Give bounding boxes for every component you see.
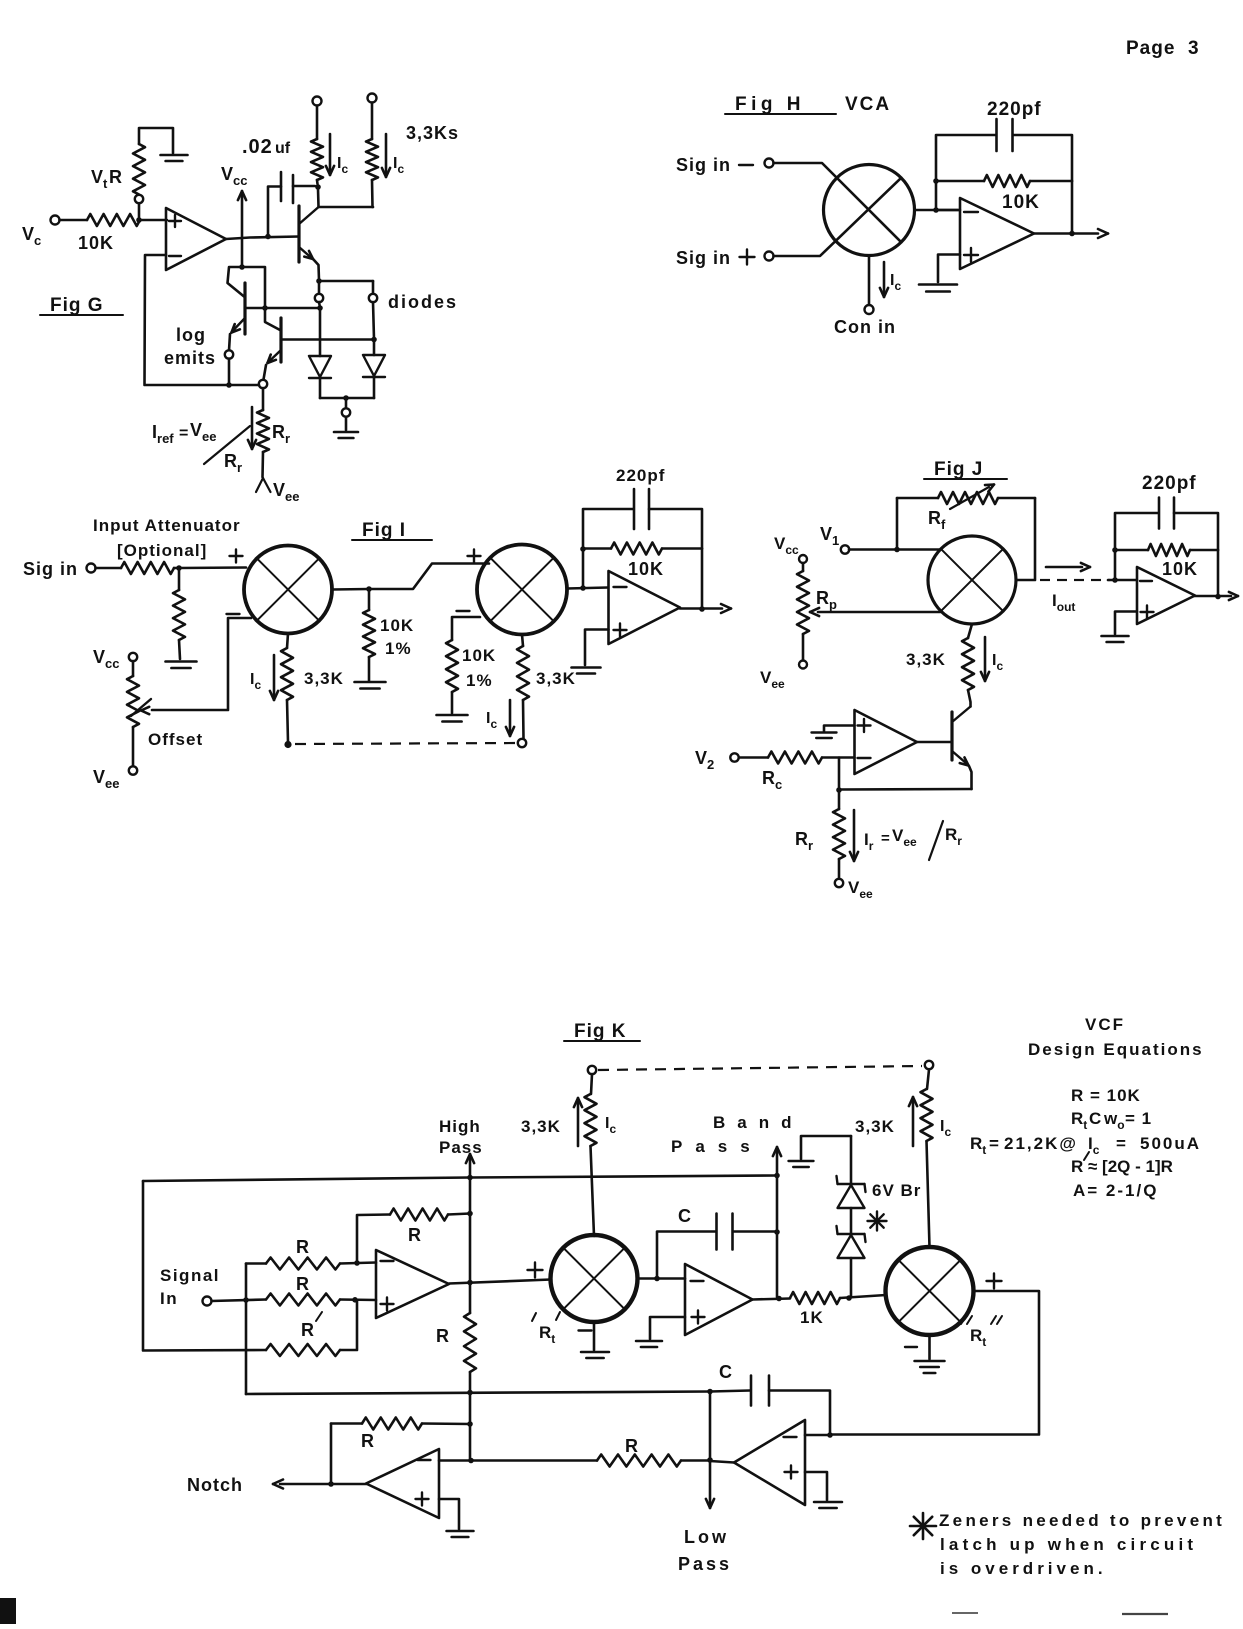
svg-text:Pass: Pass <box>671 1137 763 1156</box>
wire term to R2 <box>316 106 319 140</box>
label M2 minus <box>227 613 240 615</box>
label Iref=Vee <box>152 420 216 446</box>
svg-text:Ic: Ic <box>250 671 261 692</box>
ground G9 <box>812 733 837 739</box>
svg-text:Design Equations: Design Equations <box>1028 1040 1204 1059</box>
node I junction <box>316 278 322 284</box>
resistor R10 10K 1% <box>446 640 458 713</box>
wire col470 lower <box>469 1393 472 1424</box>
svg-text:V1: V1 <box>820 524 839 548</box>
terminal dashed left <box>588 1066 596 1074</box>
U5 minus sign <box>858 757 871 759</box>
op-amp U5 <box>855 710 918 774</box>
wire R4 right lead <box>1030 180 1072 183</box>
wire main feedback rail <box>143 1176 777 1182</box>
label 1K <box>800 1308 824 1327</box>
note line 1 <box>939 1511 1225 1530</box>
wire node F to D2 <box>373 340 376 356</box>
U3 minus sign <box>614 586 627 588</box>
wire M2 bottom <box>287 634 288 649</box>
svg-text:Rt: Rt <box>970 1134 986 1157</box>
wire V1 to M4 <box>849 548 940 551</box>
svg-text:A= 2-1/Q: A= 2-1/Q <box>1073 1181 1158 1200</box>
wire fb riser HP <box>357 1215 390 1264</box>
transistor Q4 base bar <box>950 712 953 760</box>
svg-text:Vee: Vee <box>93 767 119 791</box>
U4 minus sign <box>1140 580 1152 582</box>
wire col470 to notch <box>469 1424 472 1461</box>
node E junction <box>317 305 323 311</box>
resistor R14 3.3K J <box>962 638 974 690</box>
arrow Ic K2 <box>909 1097 917 1146</box>
label Notch <box>187 1475 243 1495</box>
wire M3 out <box>567 588 608 589</box>
svg-text:VCA: VCA <box>845 94 891 115</box>
diode D2 <box>363 355 385 377</box>
U4 plus sign <box>1141 606 1154 619</box>
wire U7 out <box>753 1299 791 1300</box>
wire C5 right lead <box>733 1230 777 1233</box>
transistor Q3 emitter <box>299 247 319 280</box>
ground G14 <box>814 1502 842 1508</box>
wire R18 to node AE <box>340 1298 376 1301</box>
wire emitter rail right <box>319 280 373 283</box>
svg-text:3,3K: 3,3K <box>855 1117 895 1136</box>
node R junction <box>580 546 586 552</box>
node U junction <box>1112 577 1118 583</box>
pot Rp body <box>797 563 809 660</box>
U1 plus sign <box>169 215 181 227</box>
svg-text:Zeners needed to prevent: Zeners needed to prevent <box>939 1511 1225 1530</box>
label Optional <box>117 541 207 560</box>
label R18 <box>296 1274 309 1294</box>
node B junction <box>239 264 245 270</box>
svg-text:High: High <box>439 1117 481 1136</box>
label Rp <box>816 588 837 612</box>
svg-text:Iout: Iout <box>1052 591 1075 614</box>
node A junction <box>136 217 142 223</box>
wire node I to diode ring left <box>318 281 321 294</box>
svg-text:=: = <box>1116 1134 1126 1153</box>
svg-text:R: R <box>625 1436 638 1456</box>
svg-text:log: log <box>176 325 206 345</box>
wire node J down <box>345 398 348 408</box>
Fig K label <box>564 1021 640 1042</box>
label Ic H <box>890 272 901 293</box>
scan dash 1 <box>952 1612 978 1614</box>
svg-text:Ic: Ic <box>940 1118 951 1139</box>
label Signal In <box>160 1266 220 1308</box>
label Design Equations <box>1028 1040 1204 1059</box>
svg-text:10K: 10K <box>380 616 414 635</box>
wire R17 to node AD <box>340 1263 376 1264</box>
svg-text:Rt: Rt <box>539 1323 555 1346</box>
wire sig- to M1 <box>774 163 902 242</box>
ground G1 <box>161 155 188 161</box>
resistor R9 10K 1% <box>363 589 375 681</box>
svg-text:Notch: Notch <box>187 1475 243 1495</box>
wire M5 to ground <box>593 1322 596 1350</box>
wire R3 down to collector rail <box>371 180 374 207</box>
wire to R15 <box>591 1074 592 1094</box>
svg-text:500uA: 500uA <box>1140 1134 1201 1153</box>
resistor R16 3.3K <box>921 1089 933 1141</box>
resistor R20 HP feedback <box>390 1209 448 1221</box>
label Ic I1 <box>250 671 261 692</box>
ground G5 <box>355 682 386 689</box>
U6 minus sign <box>381 1260 394 1262</box>
svg-text:Ic: Ic <box>393 155 404 176</box>
ground G11 <box>581 1352 609 1358</box>
node H junction <box>265 234 271 240</box>
capacitor C5 <box>717 1214 733 1250</box>
ground G7 <box>572 668 601 674</box>
capacitor C4 220pf <box>1159 498 1174 529</box>
wire U8 out <box>710 1461 734 1463</box>
svg-text:1K: 1K <box>800 1308 824 1327</box>
ground G12 <box>636 1341 662 1347</box>
wire Q1 emitter down <box>229 334 230 351</box>
wire M3 bottom <box>522 635 523 647</box>
Fig H label <box>725 94 836 115</box>
label C6 <box>719 1362 732 1382</box>
label log emits <box>164 325 216 368</box>
wire Vc to R1 <box>60 219 88 222</box>
label VCF <box>1085 1015 1125 1034</box>
wire M1 output <box>915 209 959 212</box>
U5 plus sign <box>858 719 871 732</box>
op-amp U8 LP <box>734 1420 805 1505</box>
wire right to diode term <box>372 281 375 294</box>
svg-text:Ic: Ic <box>1088 1134 1100 1157</box>
U1 minus sign <box>169 255 181 257</box>
terminal Vee I <box>129 766 137 774</box>
label 3,3K I2 <box>536 669 576 688</box>
terminal 3.3K top 2 <box>368 94 377 103</box>
svg-text:=: = <box>989 1134 999 1153</box>
svg-text:In: In <box>160 1289 178 1308</box>
wire U1 output <box>226 237 299 240</box>
wire R20 to node Y2 <box>448 1214 470 1215</box>
wire M2 out <box>332 588 369 591</box>
node AB junction <box>846 1295 852 1301</box>
wire SigIn to R18 <box>212 1300 267 1302</box>
svg-text:uf: uf <box>275 140 291 157</box>
node F junction <box>371 337 377 343</box>
ground G15 <box>447 1531 474 1537</box>
label VCA <box>845 94 891 115</box>
U9 plus sign <box>416 1493 429 1506</box>
svg-text:3,3K: 3,3K <box>521 1117 561 1136</box>
label M6 plus <box>987 1274 1002 1289</box>
scan dash 2 <box>1122 1613 1168 1615</box>
capacitor C3 220pf <box>634 489 649 529</box>
node AO junction <box>328 1481 334 1487</box>
node AJ junction <box>774 1229 780 1235</box>
wire node G to Q3 collector <box>317 189 320 207</box>
label R24 <box>361 1431 374 1451</box>
svg-text:Vee: Vee <box>760 668 785 691</box>
arrow Ic1 <box>326 134 334 175</box>
svg-text:10K: 10K <box>1162 559 1198 579</box>
wire R2 to node G <box>316 180 319 184</box>
svg-text:Vt: Vt <box>91 167 108 191</box>
wire Q4 emitter rail <box>839 788 972 791</box>
wire fb right riser down <box>1217 550 1220 597</box>
transistor Q3 base bar <box>297 206 300 262</box>
wire Rr to Vee <box>838 859 841 879</box>
label M5 plus <box>528 1263 543 1278</box>
label Sig in plus <box>676 248 755 268</box>
svg-text:10K: 10K <box>462 646 496 665</box>
wire M3 minus in <box>452 617 480 640</box>
wire node X to Rr <box>838 790 841 809</box>
multiplier M5 <box>551 1235 638 1322</box>
wire M6 ground <box>928 1335 931 1359</box>
terminal Vcc I <box>129 653 137 661</box>
arrow Low Pass <box>706 1461 714 1508</box>
label Rf <box>928 508 946 532</box>
label Vcc J <box>774 534 799 557</box>
label M3 plus <box>468 550 481 563</box>
node D junction <box>226 382 232 388</box>
wire hook to zener D3 <box>850 1136 853 1186</box>
label Vee fig G <box>273 480 299 504</box>
node AN junction <box>468 1458 474 1464</box>
svg-text:Fig K: Fig K <box>574 1021 627 1042</box>
wire M4 out <box>1016 579 1035 582</box>
label Ic1 <box>337 155 348 176</box>
wire AG down <box>709 1392 712 1461</box>
svg-text:Vcc: Vcc <box>774 534 799 557</box>
wire D3 to D4 <box>850 1208 853 1234</box>
wire D2 to bottom rail <box>373 378 376 399</box>
Rf wiper arrow <box>950 485 994 510</box>
resistor R1 10K <box>87 214 140 226</box>
resistor R18 input mid <box>266 1294 340 1306</box>
label Rc <box>762 768 782 792</box>
label 10K I <box>628 559 664 579</box>
svg-text:Vee: Vee <box>892 826 917 849</box>
svg-text:6V Br: 6V Br <box>872 1181 921 1200</box>
node V junction <box>1112 547 1118 553</box>
svg-text:Rr: Rr <box>224 451 242 475</box>
wire C4 right lead <box>1174 513 1218 550</box>
arrow Iref current <box>248 407 256 449</box>
pot Rf <box>897 492 1035 504</box>
label Ic J <box>992 652 1003 673</box>
wire zener top hook <box>801 1136 851 1159</box>
label M6 minus <box>905 1346 917 1348</box>
resistor R23 notch R <box>471 1455 710 1467</box>
svg-text:R: R <box>296 1274 309 1294</box>
svg-text:3,3Ks: 3,3Ks <box>406 123 459 143</box>
svg-text:Band: Band <box>713 1113 804 1132</box>
node P junction <box>366 586 372 592</box>
wire U8 plus ground <box>805 1472 827 1500</box>
wire M2 minus in <box>152 618 251 710</box>
wire diode bottom rail <box>320 397 374 400</box>
arrow High Pass out <box>466 1154 474 1177</box>
U7 plus sign <box>692 1311 705 1324</box>
node AK junction <box>776 1296 782 1302</box>
svg-text:V2: V2 <box>695 748 714 772</box>
svg-text:Vee: Vee <box>273 480 299 504</box>
wire C1 left lead <box>268 187 281 236</box>
label M6 Rt2 <box>961 1316 1002 1349</box>
zener D4 <box>837 1226 866 1258</box>
arrow Ir <box>850 810 858 861</box>
wire right vert to output <box>1071 181 1074 233</box>
node AL junction <box>827 1432 833 1438</box>
wire C3 right lead <box>649 509 702 549</box>
terminal diode left <box>315 294 323 302</box>
label Input Attenuator <box>93 516 241 535</box>
wire fb down to output <box>701 549 704 610</box>
node G junction <box>315 184 321 190</box>
wire R14 to Q4 collector <box>968 690 971 707</box>
wire input bus vertical <box>245 1264 248 1395</box>
terminal Sig in I <box>87 564 96 573</box>
resistor R21 mid <box>464 1283 476 1394</box>
svg-text:wo: wo <box>1103 1109 1125 1132</box>
svg-text:R: R <box>408 1225 421 1245</box>
label Rr denominator <box>224 451 242 475</box>
label 3,3K J <box>906 650 946 669</box>
wire C6 from node AG <box>710 1391 750 1392</box>
transistor Q2 log base bar <box>279 318 282 362</box>
terminal 3.3K top 1 <box>313 97 322 106</box>
label Low Pass <box>678 1527 732 1574</box>
svg-text:10K: 10K <box>78 233 114 253</box>
terminal Signal In <box>203 1297 212 1306</box>
label Ic K2 <box>940 1118 951 1139</box>
capacitor C2 220pf <box>997 119 1013 151</box>
wire Rr to Vee <box>261 452 264 477</box>
svg-text:Sig in: Sig in <box>23 559 78 579</box>
arrow Ic I2 <box>506 700 514 736</box>
ground G4 <box>166 662 197 669</box>
node M junction <box>1069 231 1075 237</box>
resistor R8 3.3K <box>281 648 293 700</box>
node L junction <box>933 178 939 184</box>
ground G2 <box>334 432 358 438</box>
op-amp U9 notch <box>366 1449 439 1518</box>
resistor R12 10K fb <box>583 543 702 555</box>
wire M4 bottom <box>968 624 972 638</box>
capacitor C6 <box>751 1376 769 1406</box>
resistor R6 shunt <box>173 568 185 659</box>
svg-text:.02: .02 <box>242 136 273 158</box>
wire notch out arrow <box>273 1480 366 1489</box>
label Vee J <box>760 668 785 691</box>
node AM junction <box>707 1457 713 1463</box>
wire lower rail <box>246 1392 710 1395</box>
node T junction <box>894 547 900 553</box>
wire Q2 emitter down <box>264 365 267 380</box>
svg-text:Sig in: Sig in <box>676 155 731 175</box>
svg-text:[Optional]: [Optional] <box>117 541 207 560</box>
svg-text:Ir: Ir <box>864 830 874 853</box>
wire Con in <box>868 256 871 305</box>
wire U9 minus link <box>439 1459 471 1462</box>
label .02uf <box>242 136 291 158</box>
svg-text:diodes: diodes <box>388 292 458 312</box>
wire Q2 collector <box>265 308 280 330</box>
svg-text:Input Attenuator: Input Attenuator <box>93 516 241 535</box>
node Z junction <box>774 1173 780 1179</box>
terminal Con in <box>865 305 874 314</box>
wire BP column <box>776 1176 779 1298</box>
multiplier M3 <box>477 545 567 635</box>
svg-text:Rt: Rt <box>970 1326 986 1349</box>
terminal on Q1 emitter <box>225 350 233 358</box>
resistor R13 10K <box>1115 544 1218 556</box>
wire D1 to bottom rail <box>319 379 322 399</box>
transistor Q1 emitter <box>232 318 246 333</box>
wire U6 out to M5 <box>449 1280 551 1284</box>
wire R22 to M6 <box>840 1295 886 1298</box>
terminal Sig in plus <box>765 252 774 261</box>
label 220pf J <box>1142 473 1197 494</box>
label Sig in minus <box>676 155 753 175</box>
svg-text:Iref: Iref <box>152 422 174 446</box>
node AD junction <box>354 1260 360 1266</box>
ground G6 <box>437 715 468 722</box>
op-amp U6 HP <box>376 1250 449 1318</box>
node AC junction <box>243 1297 249 1303</box>
U7 minus sign <box>691 1280 704 1282</box>
wire U9 plus ground <box>439 1499 459 1529</box>
svg-text:Offset: Offset <box>148 730 203 749</box>
svg-text:220pf: 220pf <box>1142 473 1197 494</box>
node W junction <box>1215 594 1221 600</box>
svg-text:R: R <box>296 1237 309 1257</box>
label Rr right <box>272 422 290 446</box>
node Y junction <box>467 1175 473 1181</box>
svg-text:Ic: Ic <box>992 652 1003 673</box>
svg-text:R: R <box>301 1320 314 1340</box>
svg-text:Fig J: Fig J <box>934 459 983 480</box>
label Vee I <box>93 767 119 791</box>
label Ic K1 <box>605 1115 616 1136</box>
svg-text:Fig I: Fig I <box>362 520 406 541</box>
svg-text:Vee: Vee <box>848 878 873 901</box>
resistor R24 notch fb <box>331 1418 470 1430</box>
ground G13 <box>915 1361 945 1373</box>
label R20 <box>408 1225 421 1245</box>
svg-text:Vcc: Vcc <box>93 647 119 671</box>
Fig G label <box>40 295 123 316</box>
wire node B to Q2 collector <box>242 267 265 308</box>
node K junction <box>933 207 939 213</box>
node Q junction <box>580 585 586 591</box>
wire U2 output arrow <box>1034 229 1108 238</box>
label M5 Rt <box>532 1312 560 1346</box>
note line 3 <box>940 1559 1107 1578</box>
Vcc arrow <box>238 191 246 267</box>
svg-text:R: R <box>1071 1157 1083 1176</box>
wire cap riser I <box>583 509 633 549</box>
wire to node E <box>319 302 320 308</box>
transistor Q4 emitter <box>952 751 972 789</box>
wire M6 out loop <box>831 1291 1039 1435</box>
svg-text:=: = <box>179 425 188 442</box>
svg-text:Rr: Rr <box>795 829 813 853</box>
terminal Vee J <box>799 661 807 669</box>
slash Iref over Rr <box>204 426 250 464</box>
op-amp U7 BP <box>685 1264 753 1335</box>
